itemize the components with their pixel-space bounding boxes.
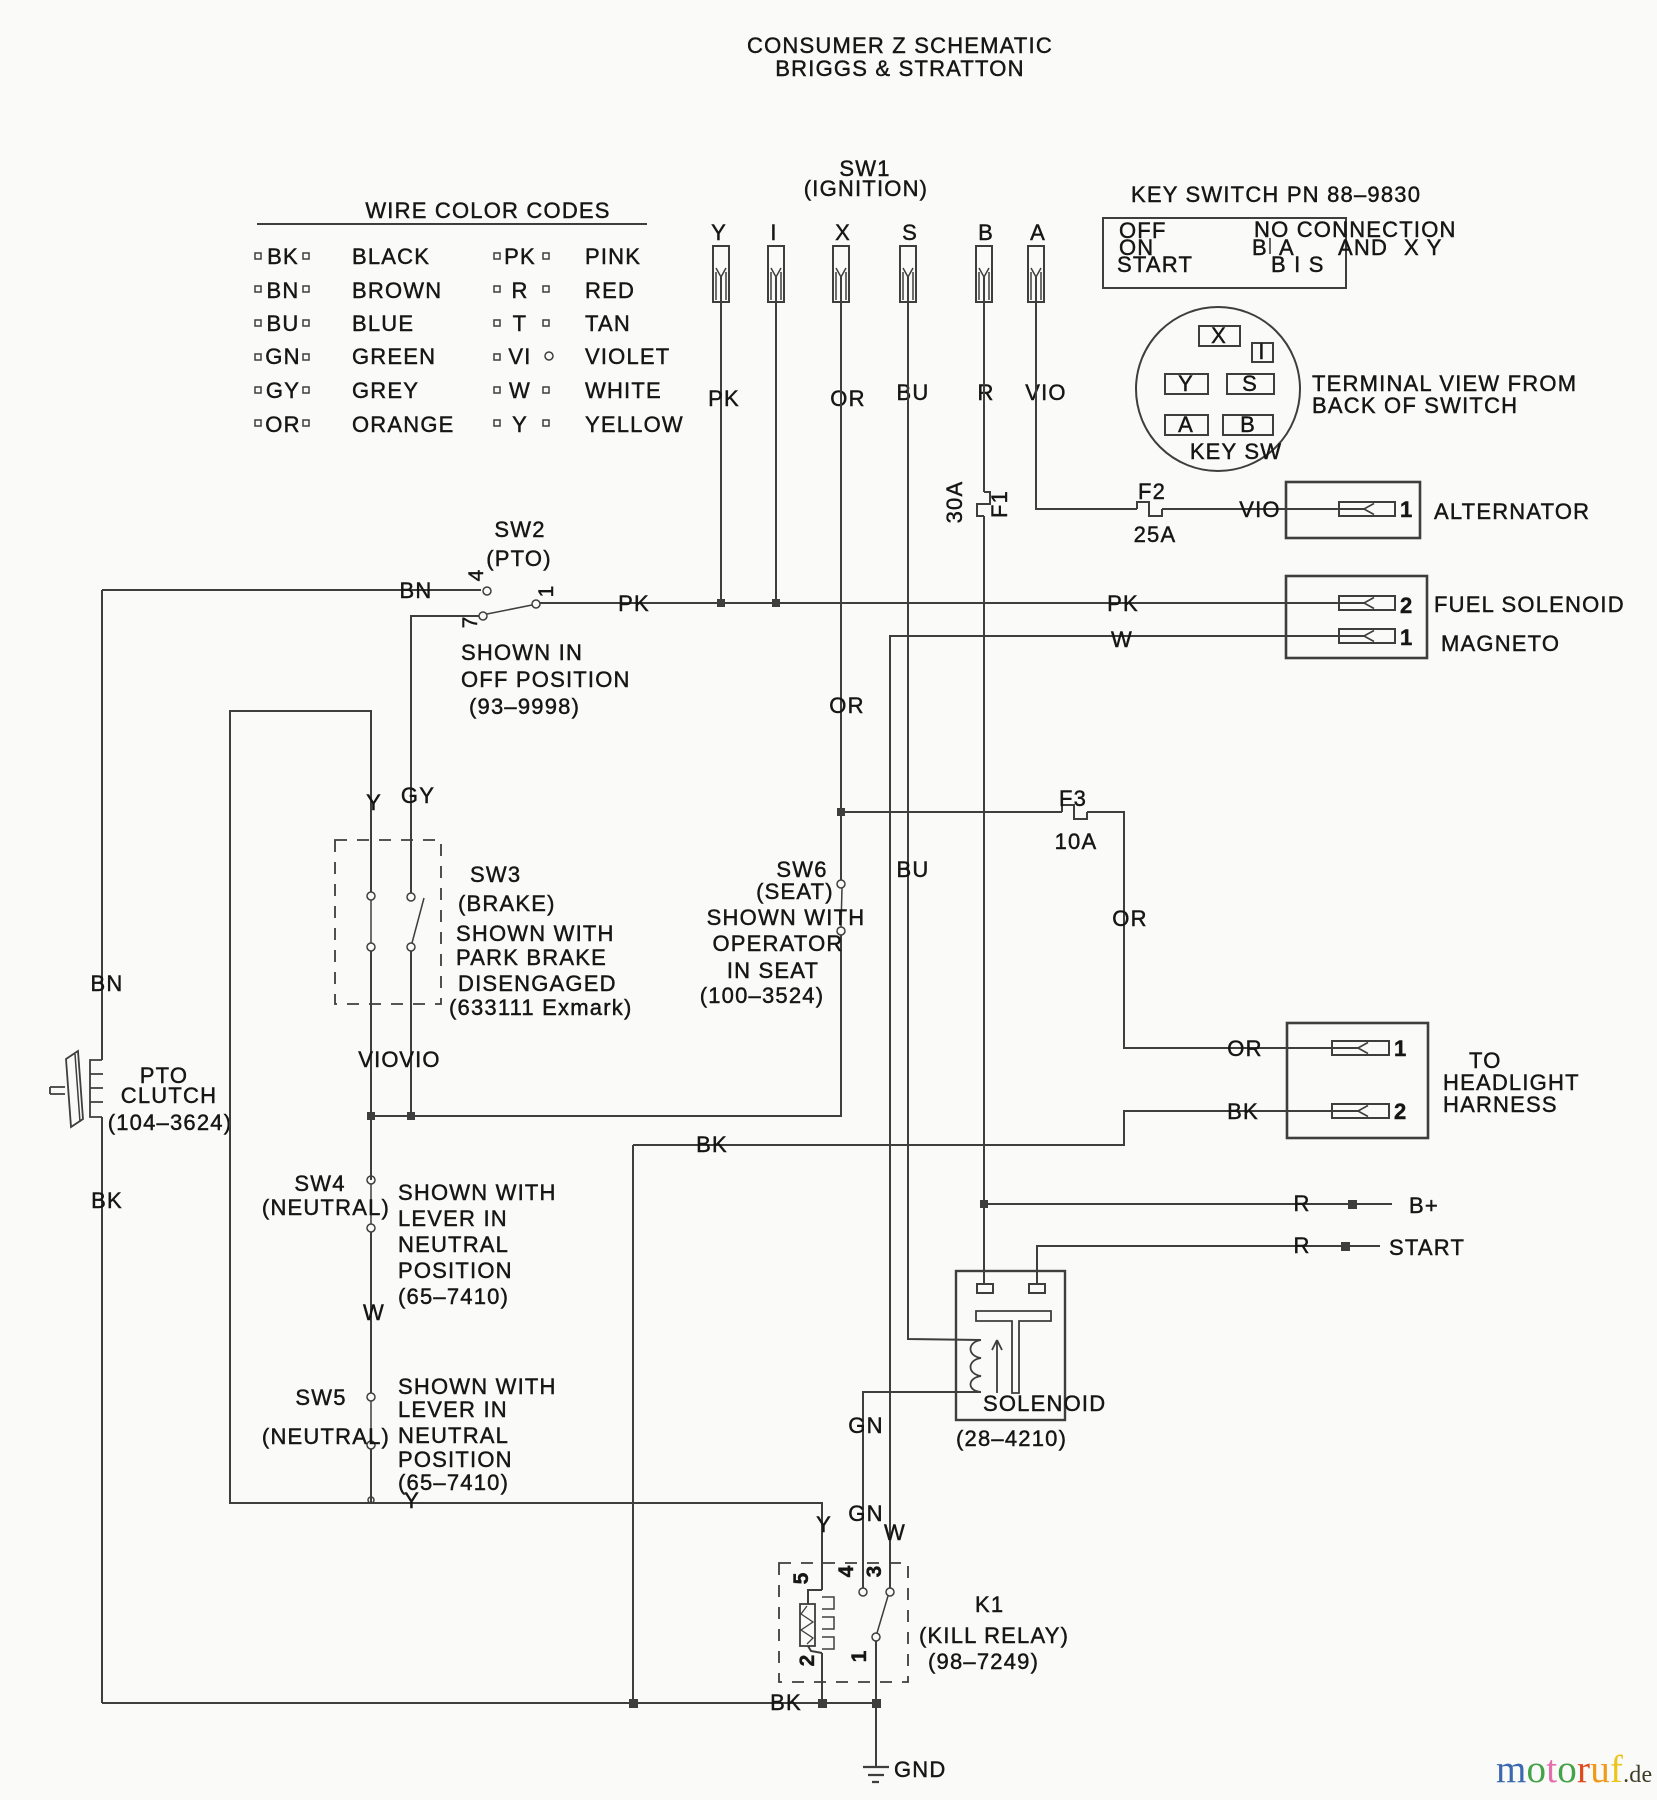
svg-text:GN: GN — [848, 1413, 883, 1438]
svg-text:PINK: PINK — [585, 244, 641, 269]
key sw terminal S — [1227, 371, 1274, 396]
label PK under Y pin — [708, 386, 740, 411]
svg-text:FUEL SOLENOID: FUEL SOLENOID — [1434, 592, 1625, 617]
wire BK bottom bus — [102, 1702, 876, 1704]
SW1 pin X terminal — [833, 220, 851, 302]
svg-text:(65–7410): (65–7410) — [398, 1470, 509, 1495]
label W at magneto — [1111, 627, 1133, 652]
svg-text:PARK BRAKE: PARK BRAKE — [456, 945, 607, 970]
key sw terminal I — [1252, 339, 1273, 364]
label GN lower — [848, 1501, 883, 1526]
labels VIO VIO — [358, 1047, 441, 1072]
svg-text:4: 4 — [465, 569, 488, 582]
svg-text:OR: OR — [829, 693, 864, 718]
wire I pin to PK line — [775, 302, 777, 603]
label PK near SW2 — [618, 591, 650, 616]
svg-text:F1: F1 — [987, 490, 1012, 518]
svg-text:BK: BK — [770, 1690, 802, 1715]
svg-text:(104–3624): (104–3624) — [108, 1110, 233, 1135]
svg-text:2: 2 — [1394, 1099, 1407, 1124]
svg-text:(BRAKE): (BRAKE) — [458, 891, 556, 916]
svg-text:B I S: B I S — [1271, 252, 1325, 277]
label B+ — [1409, 1193, 1439, 1218]
fuse F3 10A — [1055, 786, 1098, 854]
label BU mid — [897, 857, 930, 882]
svg-text:I: I — [770, 220, 777, 245]
wire Y pin (PK) to PK line — [720, 302, 722, 603]
label VIO under A pin — [1025, 380, 1067, 405]
svg-text:TAN: TAN — [585, 311, 631, 336]
svg-text:GREY: GREY — [352, 378, 419, 403]
svg-text:YELLOW: YELLOW — [585, 412, 684, 437]
key sw terminal X — [1199, 323, 1240, 348]
junction SW5/Y — [368, 1497, 374, 1503]
label OR under X pin — [830, 386, 865, 411]
svg-text:NEUTRAL: NEUTRAL — [398, 1232, 509, 1257]
key sw terminal A — [1165, 412, 1208, 437]
svg-text:R: R — [977, 380, 994, 405]
svg-text:WHITE: WHITE — [585, 378, 662, 403]
svg-text:(KILL RELAY): (KILL RELAY) — [919, 1623, 1069, 1648]
svg-text:CLUTCH: CLUTCH — [121, 1083, 217, 1108]
svg-text:GN: GN — [848, 1501, 883, 1526]
svg-text:VIO: VIO — [358, 1047, 400, 1072]
terminal dot B+ — [1349, 1201, 1356, 1208]
switch SW4 (NEUTRAL) — [262, 1171, 557, 1309]
junction PK/I — [773, 600, 779, 606]
svg-text:OR: OR — [265, 412, 300, 437]
label BU under S pin — [897, 380, 930, 405]
svg-text:PK: PK — [1107, 591, 1139, 616]
svg-text:(93–9998): (93–9998) — [469, 694, 580, 719]
title text — [747, 33, 1053, 81]
svg-text:HARNESS: HARNESS — [1443, 1092, 1558, 1117]
svg-text:W: W — [363, 1300, 385, 1325]
key sw terminal Y — [1165, 371, 1208, 396]
svg-text:BN: BN — [400, 578, 433, 603]
switch SW5 (NEUTRAL) — [262, 1374, 557, 1495]
svg-text:4: 4 — [835, 1565, 858, 1578]
label START — [1389, 1235, 1465, 1260]
svg-text:X Y: X Y — [1404, 235, 1443, 260]
svg-text:F2: F2 — [1138, 479, 1166, 504]
label VIO at alternator — [1239, 497, 1281, 522]
svg-text:A: A — [1030, 220, 1046, 245]
svg-text:BK: BK — [696, 1132, 728, 1157]
wire BK down left column — [632, 1145, 634, 1703]
svg-text:BK: BK — [267, 244, 299, 269]
wire GN from solenoid coil to relay pin 4 — [863, 1392, 981, 1588]
SW2 pin 1 — [532, 600, 540, 608]
label W — [363, 1300, 385, 1325]
svg-text:Y: Y — [1178, 371, 1194, 396]
svg-text:PK: PK — [618, 591, 650, 616]
junction dot VIO right — [408, 1113, 414, 1119]
SW2 pin 7 — [479, 612, 487, 620]
svg-text:W: W — [509, 378, 531, 403]
switch SW3 (BRAKE) dashed outline — [335, 840, 441, 1004]
SW1 pin S terminal — [900, 220, 918, 302]
svg-text:(NEUTRAL): (NEUTRAL) — [262, 1195, 390, 1220]
svg-text:25A: 25A — [1134, 522, 1177, 547]
label Y at SW5 junction — [404, 1488, 420, 1513]
svg-text:BN: BN — [91, 971, 124, 996]
wire OR from X pin through SW6 seat switch — [840, 302, 842, 880]
wire W between SW4 and SW5 — [370, 1232, 372, 1393]
svg-text:POSITION: POSITION — [398, 1258, 513, 1283]
svg-text:2: 2 — [796, 1654, 819, 1667]
svg-text:ALTERNATOR: ALTERNATOR — [1434, 499, 1590, 524]
label BN — [91, 971, 124, 996]
solenoid plunger arrow — [992, 1340, 1002, 1393]
wire Y from SW3 around to relay coil pin 5 — [230, 711, 822, 1590]
svg-text:S: S — [1242, 371, 1258, 396]
svg-text:Y: Y — [816, 1512, 832, 1537]
svg-text:OPERATOR: OPERATOR — [712, 931, 843, 956]
wire BN from SW2 pin 4 — [102, 589, 481, 591]
svg-text:X: X — [835, 220, 851, 245]
svg-text:(98–7249): (98–7249) — [928, 1649, 1039, 1674]
svg-text:I: I — [1258, 339, 1265, 364]
svg-text:T: T — [513, 311, 528, 336]
svg-text:START: START — [1117, 252, 1193, 277]
svg-text:R: R — [1293, 1191, 1310, 1216]
svg-text:OFF POSITION: OFF POSITION — [461, 667, 631, 692]
label W at relay — [884, 1520, 906, 1545]
svg-text:B: B — [1252, 235, 1268, 260]
svg-text:1: 1 — [1400, 497, 1413, 522]
label shown in off position — [461, 640, 631, 719]
svg-text:WIRE COLOR CODES: WIRE COLOR CODES — [365, 198, 610, 223]
svg-text:2: 2 — [1400, 593, 1413, 618]
solenoid contact T bar — [976, 1311, 1051, 1393]
svg-text:OR: OR — [1112, 906, 1147, 931]
label OR at headlight — [1227, 1036, 1262, 1061]
svg-text:B+: B+ — [1409, 1193, 1439, 1218]
wire color codes legend — [255, 198, 684, 437]
switch SW6 (SEAT) — [700, 857, 866, 1008]
svg-text:R: R — [511, 278, 528, 303]
label PK at fuel solenoid — [1107, 591, 1139, 616]
SW1 pin Y terminal — [711, 220, 729, 302]
wire PK from SW2 pin1 to fuel solenoid — [540, 602, 1364, 604]
svg-text:BU: BU — [897, 857, 930, 882]
label OR mid — [829, 693, 864, 718]
label GY — [401, 783, 435, 808]
label BK mid — [696, 1132, 728, 1157]
svg-text:BRIGGS & STRATTON: BRIGGS & STRATTON — [775, 56, 1024, 81]
junction PK/Y — [718, 600, 724, 606]
svg-text:5: 5 — [790, 1572, 813, 1585]
svg-text:(PTO): (PTO) — [486, 546, 551, 571]
svg-text:KEY SWITCH PN 88–9830: KEY SWITCH PN 88–9830 — [1131, 182, 1421, 207]
SW2 blade — [487, 605, 532, 614]
label BN at SW2 — [400, 578, 433, 603]
svg-text:ORANGE: ORANGE — [352, 412, 455, 437]
svg-text:3: 3 — [863, 1565, 886, 1578]
svg-text:DISENGAGED: DISENGAGED — [458, 971, 617, 996]
SW2 pin 4 — [483, 587, 491, 595]
label Y at relay — [816, 1512, 832, 1537]
wire VIO right from SW3 to junction — [410, 951, 412, 1116]
wire VIO from A pin to alternator — [1036, 302, 1137, 509]
svg-text:BK: BK — [1227, 1099, 1259, 1124]
svg-text:BLUE: BLUE — [352, 311, 414, 336]
svg-text:MAGNETO: MAGNETO — [1441, 631, 1560, 656]
label R on START line — [1293, 1233, 1310, 1258]
wire VIO left from SW3 to junction — [370, 951, 372, 1180]
label BK bottom — [770, 1690, 802, 1715]
motoruf.de watermark logo — [1496, 1747, 1652, 1792]
svg-text:CONSUMER Z SCHEMATIC: CONSUMER Z SCHEMATIC — [747, 33, 1053, 58]
SW1 pin B terminal — [976, 220, 994, 302]
svg-text:SW3: SW3 — [470, 862, 521, 887]
svg-text:SHOWN IN: SHOWN IN — [461, 640, 583, 665]
SW3 labels — [449, 862, 632, 1020]
svg-text:BU: BU — [897, 380, 930, 405]
svg-text:Y: Y — [512, 412, 528, 437]
fuse F1 30A — [942, 481, 1012, 524]
SW3 right pole (open) — [407, 893, 424, 951]
svg-text:SW4: SW4 — [294, 1171, 345, 1196]
svg-text:BROWN: BROWN — [352, 278, 442, 303]
wire R to B+ — [984, 1203, 1392, 1205]
svg-text:START: START — [1389, 1235, 1465, 1260]
svg-text:1: 1 — [535, 585, 558, 598]
solenoid terminal B — [977, 1284, 993, 1293]
svg-text:SW5: SW5 — [295, 1385, 346, 1410]
terminal dot START — [1342, 1243, 1349, 1250]
solenoid terminal S — [1029, 1284, 1045, 1293]
svg-text:PK: PK — [504, 244, 536, 269]
svg-text:SW2: SW2 — [494, 517, 545, 542]
svg-text:X: X — [1211, 323, 1227, 348]
relay labels — [919, 1592, 1069, 1674]
SW1 pin A terminal — [1028, 220, 1046, 302]
svg-text:BU: BU — [267, 311, 300, 336]
wire junction line to OR — [371, 1115, 842, 1117]
junction R/B+ — [981, 1201, 987, 1207]
svg-text:GY: GY — [401, 783, 435, 808]
PTO clutch (104-3624) — [50, 1051, 232, 1135]
svg-text:KEY SW: KEY SW — [1190, 439, 1282, 464]
svg-text:30A: 30A — [942, 481, 967, 524]
wire R to START — [1037, 1246, 1380, 1284]
svg-text:IN SEAT: IN SEAT — [727, 958, 819, 983]
svg-text:GND: GND — [894, 1757, 947, 1782]
label GN upper — [848, 1413, 883, 1438]
label R under B pin — [977, 380, 994, 405]
svg-text:(SEAT): (SEAT) — [756, 879, 834, 904]
svg-text:(NEUTRAL): (NEUTRAL) — [262, 1424, 390, 1449]
svg-text:7: 7 — [459, 616, 482, 629]
svg-text:Y: Y — [366, 790, 382, 815]
svg-text:VIO: VIO — [1025, 380, 1067, 405]
svg-text:AND: AND — [1338, 235, 1388, 260]
junction dot VIO left — [368, 1113, 374, 1119]
svg-text:BK: BK — [91, 1188, 123, 1213]
svg-text:GREEN: GREEN — [352, 344, 436, 369]
wire OR through fuse F3 to headlight — [841, 811, 1062, 813]
wire BK from clutch to bottom — [101, 1117, 103, 1703]
svg-text:GN: GN — [265, 344, 300, 369]
wire R from B pin to solenoid — [983, 302, 985, 492]
svg-text:F3: F3 — [1059, 786, 1087, 811]
svg-text:1: 1 — [1400, 625, 1413, 650]
svg-text:S: S — [902, 220, 918, 245]
svg-text:R: R — [1293, 1233, 1310, 1258]
label BK — [91, 1188, 123, 1213]
connector SW1 (IGNITION) label — [804, 156, 928, 201]
fuse F2 25A — [1134, 479, 1177, 547]
svg-text:A: A — [1178, 412, 1194, 437]
key switch terminal view circle KEY SW — [1136, 307, 1300, 471]
SW3 left pole — [367, 892, 375, 951]
SW1 pin I terminal — [768, 220, 784, 302]
svg-text:SHOWN WITH: SHOWN WITH — [398, 1180, 557, 1205]
solenoid (28-4210) — [956, 1271, 1106, 1451]
solenoid coil — [971, 1340, 982, 1392]
relay coil between pins 5 and 2 — [790, 1572, 834, 1703]
svg-text:LEVER IN: LEVER IN — [398, 1397, 508, 1422]
svg-text:SHOWN WITH: SHOWN WITH — [707, 905, 866, 930]
connector alternator — [1286, 482, 1590, 538]
svg-text:OR: OR — [1227, 1036, 1262, 1061]
svg-text:(65–7410): (65–7410) — [398, 1284, 509, 1309]
svg-text:SHOWN WITH: SHOWN WITH — [398, 1374, 557, 1399]
svg-text:VIO: VIO — [399, 1047, 441, 1072]
svg-text:K1: K1 — [975, 1592, 1004, 1617]
connector fuel solenoid / magneto — [1286, 576, 1625, 658]
svg-text:NEUTRAL: NEUTRAL — [398, 1423, 509, 1448]
relay blade 3 to common — [877, 1596, 888, 1633]
svg-text:SOLENOID: SOLENOID — [983, 1391, 1106, 1416]
relay K1 (KILL RELAY) dashed outline — [779, 1563, 908, 1682]
label OR on vertical — [1112, 906, 1147, 931]
svg-text:BACK OF SWITCH: BACK OF SWITCH — [1312, 393, 1518, 418]
wire BK from junction to headlight pin 2 — [633, 1111, 1358, 1145]
label R on B+ line — [1293, 1191, 1310, 1216]
relay pin 4 — [859, 1588, 867, 1596]
label Y at SW3 — [366, 790, 382, 815]
svg-text:10A: 10A — [1055, 829, 1098, 854]
svg-text:(IGNITION): (IGNITION) — [804, 176, 928, 201]
svg-text:W: W — [884, 1520, 906, 1545]
svg-text:OR: OR — [830, 386, 865, 411]
svg-text:GY: GY — [266, 378, 300, 403]
connector to headlight harness — [1287, 1023, 1580, 1138]
svg-text:VIOLET: VIOLET — [585, 344, 670, 369]
svg-text:B: B — [978, 220, 994, 245]
junction dot OR/F3 — [838, 809, 844, 815]
svg-text:(100–3524): (100–3524) — [700, 983, 825, 1008]
wire BN down to PTO clutch — [101, 590, 103, 1060]
label BK at headlight — [1227, 1099, 1259, 1124]
switch SW2 (PTO) — [102, 517, 631, 719]
junction BK/coil — [819, 1700, 826, 1707]
svg-text:1: 1 — [848, 1650, 871, 1663]
wire GY from SW2 pin 7 to SW3 — [411, 616, 479, 893]
relay pin 3 — [886, 1588, 894, 1596]
svg-text:VI: VI — [508, 344, 531, 369]
svg-text:BLACK: BLACK — [352, 244, 430, 269]
svg-text:Y: Y — [711, 220, 727, 245]
label KEY SW — [1190, 439, 1282, 464]
junction BK/relay — [873, 1700, 880, 1707]
svg-text:LEVER IN: LEVER IN — [398, 1206, 508, 1231]
key sw terminal B — [1223, 412, 1273, 437]
wire BU from S pin to solenoid coil — [908, 302, 981, 1340]
svg-text:SHOWN WITH: SHOWN WITH — [456, 921, 615, 946]
svg-text:B: B — [1240, 412, 1256, 437]
svg-text:VIO: VIO — [1239, 497, 1281, 522]
svg-text:(633111 Exmark): (633111 Exmark) — [449, 995, 632, 1020]
relay common terminal 1 — [872, 1633, 880, 1641]
wire W magneto — [890, 636, 1364, 1588]
svg-text:POSITION: POSITION — [398, 1447, 513, 1472]
label terminal view from back of switch — [1312, 371, 1577, 418]
key switch table KEY SWITCH PN 88-9830 — [1103, 182, 1457, 288]
ground — [863, 1703, 947, 1782]
svg-text:W: W — [1111, 627, 1133, 652]
wire SW5 to Y line — [370, 1449, 372, 1503]
wire relay common to BK — [875, 1641, 877, 1703]
junction BK/column — [630, 1700, 637, 1707]
svg-text:PK: PK — [708, 386, 740, 411]
svg-text:BN: BN — [267, 278, 300, 303]
svg-text:RED: RED — [585, 278, 635, 303]
svg-text:1: 1 — [1394, 1036, 1407, 1061]
svg-text:(28–4210): (28–4210) — [956, 1426, 1067, 1451]
